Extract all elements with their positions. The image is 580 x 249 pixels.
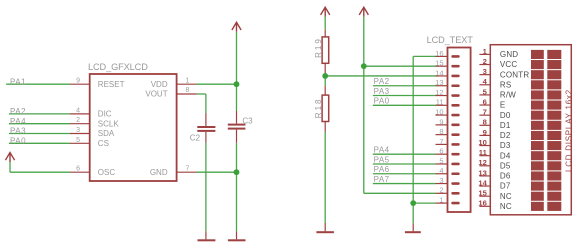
svg-text:PA7: PA7 [374, 175, 390, 184]
svg-text:C2: C2 [190, 134, 201, 143]
svg-text:NC: NC [500, 192, 512, 201]
svg-text:NC: NC [500, 202, 512, 211]
svg-text:11: 11 [436, 98, 444, 107]
svg-text:LCD DISPLAY 16x2: LCD DISPLAY 16x2 [565, 89, 574, 172]
svg-text:PA1: PA1 [10, 77, 26, 86]
svg-text:7: 7 [483, 108, 487, 117]
svg-text:PA3: PA3 [10, 127, 26, 136]
svg-text:6: 6 [439, 147, 443, 156]
svg-text:RS: RS [500, 80, 512, 89]
svg-text:1: 1 [439, 196, 443, 205]
svg-text:SDA: SDA [98, 129, 115, 138]
svg-text:GND: GND [500, 50, 518, 59]
svg-text:16: 16 [478, 199, 486, 208]
svg-text:16: 16 [435, 49, 443, 58]
svg-text:12: 12 [435, 88, 443, 97]
svg-text:R18: R18 [314, 98, 323, 119]
svg-text:LCD_TEXT: LCD_TEXT [427, 35, 474, 45]
svg-text:R/W: R/W [500, 91, 516, 100]
svg-text:OSC: OSC [98, 168, 116, 177]
svg-text:D4: D4 [500, 151, 511, 160]
svg-text:CONTR: CONTR [500, 70, 529, 79]
svg-text:12: 12 [478, 158, 486, 167]
svg-text:VCC: VCC [500, 60, 518, 69]
svg-text:D0: D0 [500, 111, 511, 120]
svg-text:1: 1 [186, 77, 190, 84]
svg-text:7: 7 [439, 137, 443, 146]
svg-text:15: 15 [478, 189, 487, 198]
svg-text:D2: D2 [500, 131, 511, 140]
svg-text:PA2: PA2 [10, 107, 26, 116]
svg-text:VDD: VDD [151, 80, 168, 89]
svg-text:4: 4 [439, 166, 443, 175]
svg-text:CS: CS [98, 139, 109, 148]
svg-text:GND: GND [150, 168, 168, 177]
svg-text:PA2: PA2 [374, 77, 390, 86]
svg-text:10: 10 [435, 107, 443, 116]
svg-text:PA3: PA3 [374, 87, 390, 96]
svg-text:PA0: PA0 [374, 97, 390, 106]
svg-text:8: 8 [439, 127, 443, 136]
svg-text:VOUT: VOUT [145, 90, 167, 99]
svg-text:D5: D5 [500, 161, 511, 170]
svg-text:PA0: PA0 [10, 137, 26, 146]
svg-text:5: 5 [439, 156, 443, 165]
svg-text:14: 14 [478, 178, 487, 187]
svg-text:2: 2 [483, 57, 487, 66]
svg-text:DIC: DIC [98, 110, 112, 119]
svg-text:PA4: PA4 [10, 117, 26, 126]
svg-text:PA4: PA4 [374, 146, 390, 155]
svg-text:C3: C3 [242, 116, 253, 125]
svg-text:RESET: RESET [98, 80, 125, 89]
svg-text:6: 6 [76, 166, 80, 173]
svg-text:PA6: PA6 [374, 165, 390, 174]
svg-text:10: 10 [478, 138, 486, 147]
svg-text:2: 2 [439, 186, 443, 195]
svg-text:PA5: PA5 [374, 155, 390, 164]
svg-text:8: 8 [483, 118, 487, 127]
svg-text:13: 13 [478, 168, 486, 177]
svg-text:13: 13 [435, 78, 443, 87]
svg-text:9: 9 [439, 117, 443, 126]
svg-text:15: 15 [435, 59, 443, 68]
svg-text:3: 3 [439, 176, 443, 185]
svg-text:D3: D3 [500, 141, 511, 150]
svg-text:14: 14 [435, 68, 443, 77]
svg-text:5: 5 [76, 137, 80, 144]
svg-text:3: 3 [76, 127, 80, 134]
svg-text:8: 8 [186, 87, 190, 94]
svg-text:D1: D1 [500, 121, 511, 130]
svg-text:R19: R19 [314, 37, 323, 58]
svg-text:D6: D6 [500, 172, 511, 181]
svg-text:3: 3 [483, 67, 487, 76]
svg-text:SCLK: SCLK [98, 119, 120, 128]
svg-text:2: 2 [76, 117, 80, 124]
svg-text:D7: D7 [500, 182, 511, 191]
svg-text:E: E [500, 101, 506, 110]
svg-text:9: 9 [76, 78, 80, 85]
svg-text:4: 4 [76, 107, 80, 114]
svg-text:9: 9 [483, 128, 487, 137]
svg-text:6: 6 [483, 97, 487, 106]
svg-text:7: 7 [186, 165, 190, 172]
svg-text:11: 11 [479, 148, 488, 157]
svg-text:LCD_GFXLCD: LCD_GFXLCD [88, 62, 148, 72]
